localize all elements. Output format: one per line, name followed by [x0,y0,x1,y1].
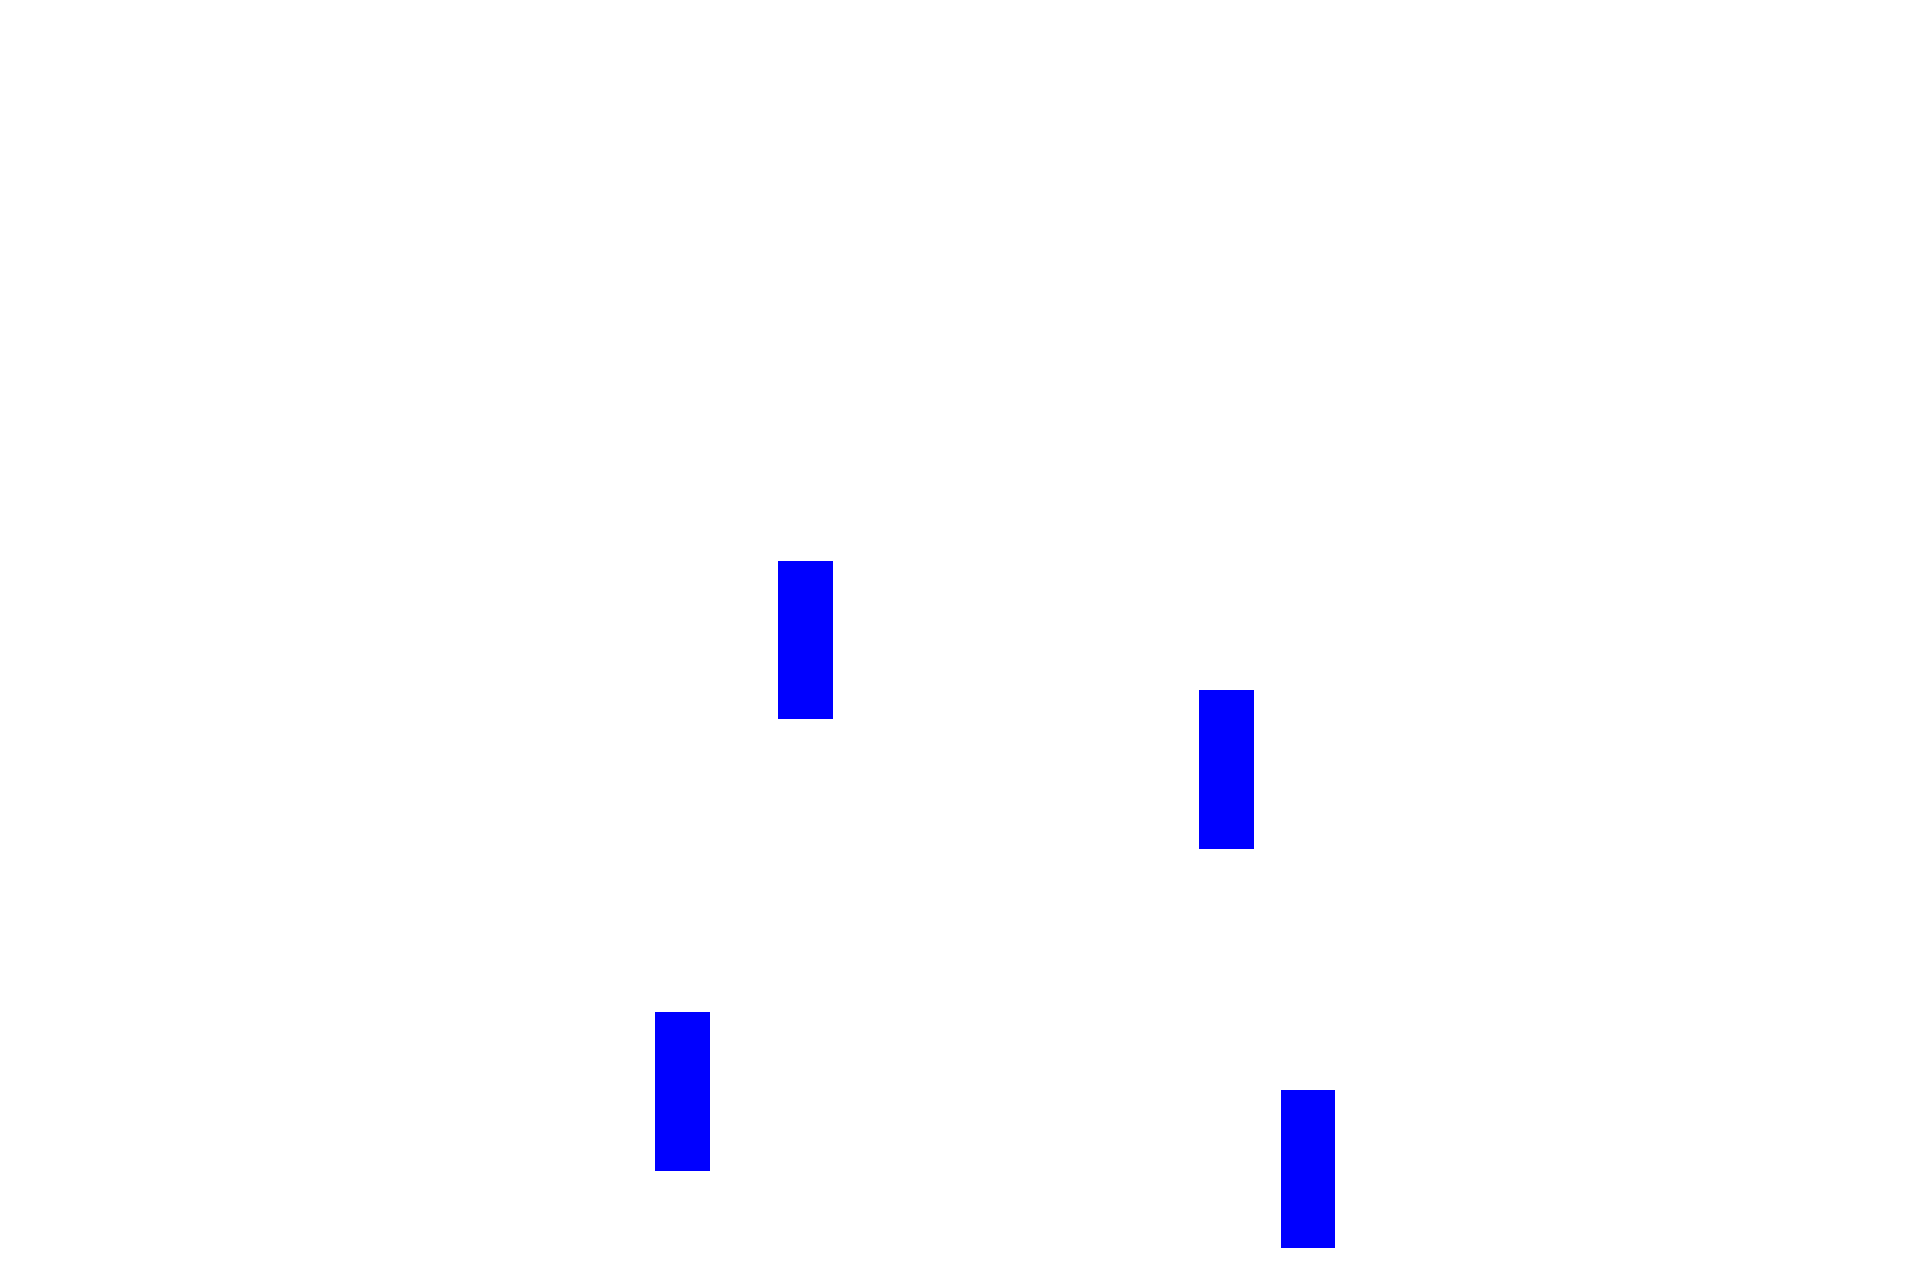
tile 1 (upper-left blue rectangle) [778,561,833,719]
tile 3 (lower-left blue rectangle) [655,1012,710,1171]
tile 4 (lower-right blue rectangle) [1281,1090,1336,1248]
tile 2 (upper-right blue rectangle) [1199,690,1254,849]
